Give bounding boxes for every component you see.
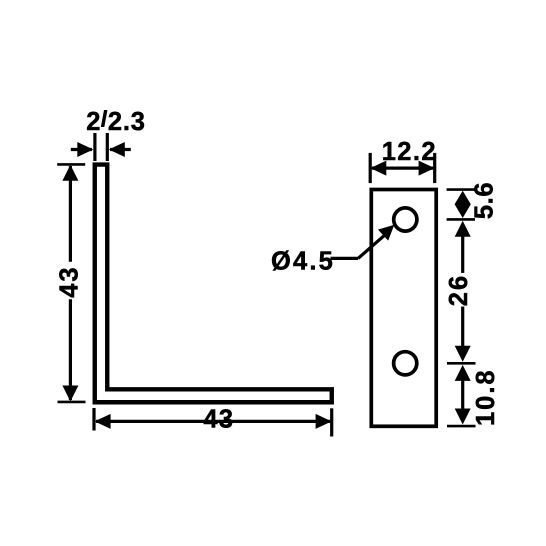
- svg-text:Ø4.5: Ø4.5: [271, 248, 335, 276]
- svg-text:43: 43: [203, 406, 234, 434]
- svg-text:10.8: 10.8: [472, 368, 500, 426]
- svg-text:2/2.3: 2/2.3: [86, 108, 145, 136]
- svg-text:12.2: 12.2: [382, 138, 437, 166]
- svg-text:26: 26: [445, 274, 473, 306]
- svg-text:5.6: 5.6: [470, 182, 498, 219]
- svg-text:43: 43: [56, 265, 84, 297]
